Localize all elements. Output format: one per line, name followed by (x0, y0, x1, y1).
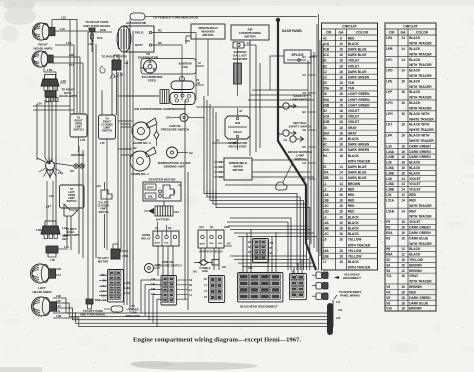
svg-text:L51: L51 (386, 193, 392, 197)
svg-text:LIGHT GREEN: LIGHT GREEN (348, 103, 370, 107)
svg-text:GRAY: GRAY (348, 126, 358, 130)
svg-text:IGN: IGN (218, 243, 222, 245)
svg-text:LPD: LPD (386, 69, 393, 73)
svg-text:16: 16 (401, 285, 405, 289)
svg-text:HEA.: HEA. (62, 237, 68, 241)
air conditioning motor (231, 25, 269, 40)
wire L3C (52, 20, 77, 28)
svg-text:18: 18 (339, 238, 343, 242)
svg-text:LINK: LINK (202, 269, 208, 273)
svg-text:G2: G2 (189, 151, 193, 155)
brake warning switch symbol (276, 182, 287, 190)
wire ac motor down (249, 40, 251, 156)
svg-text:SWITCH: SWITCH (66, 199, 76, 203)
svg-text:16: 16 (401, 112, 405, 116)
svg-text:18: 18 (339, 59, 343, 63)
svg-text:BLACK: BLACK (409, 166, 421, 170)
svg-text:16: 16 (339, 53, 343, 57)
svg-text:D5: D5 (303, 145, 307, 149)
wire color code table 1 (322, 23, 378, 270)
svg-text:RED: RED (348, 36, 355, 40)
svg-text:C1: C1 (247, 41, 251, 45)
svg-text:LIGHT GREEN: LIGHT GREEN (348, 98, 370, 102)
svg-text:RED: RED (348, 204, 355, 208)
connector block engine harness (209, 276, 225, 303)
svg-text:L4C: L4C (60, 27, 65, 31)
svg-text:L21A: L21A (122, 249, 128, 253)
svg-text:B2: B2 (303, 110, 307, 114)
svg-text:14: 14 (401, 36, 405, 40)
wire coil feeds (195, 84, 204, 86)
svg-text:BATTERY: BATTERY (156, 218, 170, 222)
svg-text:T11: T11 (140, 66, 145, 70)
svg-text:DARK GREEN: DARK GREEN (409, 296, 431, 300)
svg-text:RED: RED (348, 187, 355, 191)
fusible link diamond (199, 260, 208, 266)
svg-text:HEADLAMPS: HEADLAMPS (33, 46, 52, 50)
svg-text:SOL: SOL (148, 196, 154, 199)
svg-text:G6: G6 (303, 91, 307, 95)
svg-text:L6A: L6A (323, 249, 330, 253)
to right open limit switch (70, 114, 87, 137)
wire L4C (55, 30, 88, 32)
svg-text:COLOR: COLOR (356, 30, 369, 34)
svg-text:L34: L34 (386, 144, 392, 148)
svg-text:D5A: D5A (323, 87, 330, 91)
svg-text:L3D: L3D (323, 210, 330, 214)
svg-text:R2A: R2A (386, 231, 393, 235)
svg-text:B2: B2 (323, 64, 327, 68)
scan blotch top-left (4, 1, 34, 9)
svg-text:14: 14 (339, 176, 343, 180)
svg-text:L3D: L3D (69, 53, 74, 57)
svg-text:L3D: L3D (56, 267, 61, 271)
svg-text:MOTOR: MOTOR (233, 168, 245, 172)
distributor (144, 60, 157, 73)
svg-text:DARK BLUE: DARK BLUE (348, 176, 367, 180)
svg-text:18: 18 (401, 307, 405, 311)
svg-text:BATT: BATT (200, 243, 206, 246)
connector block left firewall (108, 270, 124, 302)
lamp left headlamp lower (32, 297, 51, 316)
svg-text:BLACK: BLACK (409, 90, 421, 94)
svg-text:G2: G2 (303, 128, 307, 132)
svg-text:18: 18 (339, 131, 343, 135)
svg-text:R6A: R6A (386, 253, 393, 257)
connector to left dual headlamps (41, 226, 60, 234)
connector left closing switch plug (101, 190, 112, 199)
air conditioning compressor (160, 90, 169, 104)
wire trunk center verticals (117, 72, 119, 248)
svg-text:WITH TRACER: WITH TRACER (409, 280, 432, 284)
low oil pressure switch lower (145, 264, 154, 273)
svg-text:SWITCH: SWITCH (102, 129, 112, 133)
svg-text:L34A: L34A (386, 150, 394, 154)
svg-text:BROWN: BROWN (348, 182, 361, 186)
lamp left headlamp upper (31, 264, 50, 283)
connector left turn feed (46, 170, 54, 177)
windshield washer motor (191, 24, 225, 39)
svg-text:L3B: L3B (88, 42, 93, 46)
svg-text:16: 16 (339, 193, 343, 197)
svg-text:CIRCUIT: CIRCUIT (342, 24, 357, 28)
svg-text:G6: G6 (323, 126, 327, 130)
svg-text:B1: B1 (323, 59, 327, 63)
alternator regulator (225, 116, 250, 139)
svg-text:18: 18 (339, 98, 343, 102)
horn no 2 (132, 122, 150, 140)
ground terminal rings (74, 164, 78, 168)
svg-text:TAN: TAN (348, 87, 355, 91)
svg-text:COLOR: COLOR (416, 30, 429, 34)
svg-text:V5: V5 (386, 296, 390, 300)
svg-text:WITH TRACER: WITH TRACER (409, 242, 432, 246)
svg-text:18: 18 (339, 255, 343, 259)
svg-text:WITH TRACER: WITH TRACER (409, 52, 432, 56)
svg-text:H1: H1 (155, 226, 159, 230)
svg-text:BULKHEAD DISCONNECT: BULKHEAD DISCONNECT (240, 305, 278, 309)
svg-text:16: 16 (339, 47, 343, 51)
svg-text:DARK GREEN: DARK GREEN (409, 226, 431, 230)
svg-text:18: 18 (339, 115, 343, 119)
svg-text:18: 18 (339, 154, 343, 158)
svg-text:18: 18 (401, 274, 405, 278)
svg-text:BROWN: BROWN (409, 285, 422, 289)
svg-text:L4C: L4C (61, 79, 66, 83)
wire trunk left verticals (69, 20, 71, 114)
wire resistor bottom (237, 84, 239, 96)
svg-text:14: 14 (401, 209, 405, 213)
svg-text:RED: RED (409, 290, 416, 294)
svg-text:TO FENDER TURN INDICATOR: TO FENDER TURN INDICATOR (153, 16, 199, 20)
svg-text:LPK: LPK (386, 134, 393, 138)
svg-text:D6A: D6A (323, 98, 330, 102)
svg-text:10: 10 (339, 42, 343, 46)
svg-text:P5: P5 (386, 220, 390, 224)
connector right headlamp feed (45, 91, 56, 97)
wire horizontals right to trunk (252, 89, 308, 91)
scan gray band top (0, 0, 474, 6)
svg-text:L38: L38 (386, 177, 392, 181)
svg-text:L3A: L3A (323, 193, 330, 197)
fusible link capsule (130, 13, 145, 20)
svg-text:WHITE TRACER: WHITE TRACER (409, 139, 434, 143)
wire field to regulator (195, 33, 197, 101)
wire horn relay feeds (157, 222, 159, 235)
wire coil frame feed (196, 65, 204, 67)
svg-text:WITH TRACER: WITH TRACER (348, 266, 371, 270)
svg-text:18: 18 (401, 226, 405, 230)
svg-text:14: 14 (339, 165, 343, 169)
resistor ignition ballast (234, 63, 242, 84)
wire top distribution (152, 16, 317, 18)
svg-text:16: 16 (339, 221, 343, 225)
svg-text:16: 16 (401, 134, 405, 138)
svg-text:L34B: L34B (386, 155, 394, 159)
neutral safety switch (283, 130, 289, 136)
svg-text:J2: J2 (323, 165, 327, 169)
svg-text:MOTOR: MOTOR (98, 259, 108, 263)
to left open limit switch (60, 185, 85, 208)
svg-text:L6B: L6B (323, 255, 330, 259)
svg-text:RED: RED (348, 193, 355, 197)
svg-text:C2: C2 (303, 73, 307, 77)
svg-text:RED: RED (409, 193, 416, 197)
connector left park-turn (86, 299, 93, 304)
wire L7 left (46, 181, 48, 225)
temperature gauge sending unit (167, 147, 178, 158)
svg-text:18: 18 (339, 75, 343, 79)
svg-text:L7N: L7N (47, 68, 52, 72)
svg-text:DARK BLUE: DARK BLUE (409, 301, 428, 305)
svg-text:14: 14 (401, 58, 405, 62)
svg-text:T11: T11 (386, 274, 392, 278)
svg-text:STARTER MOTOR: STARTER MOTOR (149, 178, 176, 182)
svg-text:GRD: GRD (224, 226, 230, 229)
svg-text:L36A: L36A (386, 166, 394, 170)
svg-text:T11: T11 (270, 242, 275, 245)
svg-text:G6A: G6A (166, 116, 172, 120)
wire V10 washer (186, 36, 191, 44)
svg-text:G5B: G5B (100, 28, 106, 32)
svg-text:L38A: L38A (125, 287, 131, 290)
wire splice feeds (270, 56, 284, 90)
svg-text:14: 14 (339, 182, 343, 186)
svg-text:16: 16 (339, 204, 343, 208)
svg-text:S2: S2 (386, 258, 390, 262)
svg-text:L6: L6 (323, 238, 327, 242)
svg-text:DARK BLUE: DARK BLUE (348, 165, 367, 169)
svg-text:SOL: SOL (209, 243, 214, 245)
svg-text:VIOLET: VIOLET (348, 64, 360, 68)
svg-text:16: 16 (401, 90, 405, 94)
svg-text:16: 16 (339, 148, 343, 152)
svg-text:VIOLET: VIOLET (348, 59, 360, 63)
svg-text:SWITCH: SWITCH (73, 128, 83, 132)
svg-text:L3C: L3C (323, 204, 330, 208)
svg-text:BLACK: BLACK (348, 137, 360, 141)
svg-text:12: 12 (401, 193, 405, 197)
svg-text:GRAY: GRAY (348, 131, 358, 135)
svg-text:DARK BLUE: DARK BLUE (348, 53, 367, 57)
svg-text:V3: V3 (386, 285, 390, 289)
svg-text:14: 14 (401, 177, 405, 181)
svg-text:BLACK: BLACK (409, 101, 421, 105)
wire starter relay drops (200, 248, 202, 266)
svg-text:YELLOW: YELLOW (409, 258, 423, 262)
svg-text:18: 18 (401, 155, 405, 159)
svg-text:A1A: A1A (323, 42, 330, 46)
svg-text:TAN: TAN (348, 81, 355, 85)
svg-text:L34: L34 (338, 309, 343, 312)
wire compressor feed (124, 95, 159, 97)
svg-text:14: 14 (401, 188, 405, 192)
svg-text:18: 18 (339, 120, 343, 124)
svg-text:R3: R3 (216, 139, 220, 143)
svg-text:BLACK: BLACK (409, 171, 421, 175)
svg-text:18: 18 (339, 103, 343, 107)
svg-text:B1: B1 (303, 55, 307, 59)
svg-text:BLACK: BLACK (348, 215, 360, 219)
svg-text:A1: A1 (323, 36, 327, 40)
svg-text:WITH TRACER: WITH TRACER (348, 159, 371, 163)
connector left headlamp feed (46, 246, 58, 253)
svg-text:14: 14 (401, 182, 405, 186)
wire bundle headlamp to ground fan (37, 158, 50, 164)
svg-text:L36: L36 (386, 161, 392, 165)
svg-text:16: 16 (339, 215, 343, 219)
svg-text:VIOLET: VIOLET (348, 120, 360, 124)
svg-text:A/C: A/C (222, 266, 227, 269)
wire horns feed (150, 118, 204, 124)
svg-text:V10: V10 (386, 307, 392, 311)
wire horn feeds left (118, 120, 132, 122)
svg-text:L36: L36 (151, 283, 156, 286)
svg-text:BLACK: BLACK (348, 227, 360, 231)
svg-text:HEADLAMPS: HEADLAMPS (63, 233, 80, 237)
connector block center firewall (161, 276, 177, 306)
wire left mid verticals (66, 216, 68, 246)
svg-text:GA: GA (401, 30, 407, 34)
svg-text:BATT: BATT (147, 187, 154, 190)
svg-text:VIOLET: VIOLET (348, 115, 360, 119)
svg-text:D5: D5 (323, 81, 327, 85)
svg-text:GRAY: GRAY (409, 274, 419, 278)
svg-text:L1: L1 (323, 182, 327, 186)
svg-text:YELLOW: YELLOW (348, 238, 362, 242)
svg-text:14: 14 (401, 69, 405, 73)
svg-text:WITH TRACER: WITH TRACER (409, 106, 432, 110)
svg-text:L4B: L4B (36, 228, 41, 232)
svg-text:L3C: L3C (61, 16, 66, 20)
connector diamond oil pressure (154, 131, 159, 139)
svg-text:SWITCH: SWITCH (98, 210, 108, 214)
wire left closing down (104, 214, 106, 248)
svg-text:C3: C3 (323, 75, 327, 79)
svg-text:CIR: CIR (326, 30, 332, 34)
fusible link holder (212, 260, 219, 266)
svg-text:BLACK WITH: BLACK WITH (409, 134, 430, 138)
svg-text:V10: V10 (185, 39, 190, 43)
svg-text:16: 16 (401, 263, 405, 267)
wires closing limit switch feeds (101, 90, 103, 115)
svg-text:L4A: L4A (323, 221, 330, 225)
wire trunk left-inner verticals (36, 104, 38, 160)
svg-text:WITH TRACER: WITH TRACER (409, 63, 432, 67)
back-up lamp switch (283, 103, 289, 109)
svg-text:DARK BLUE: DARK BLUE (409, 236, 428, 240)
svg-text:16: 16 (401, 79, 405, 83)
wire G6 lower (154, 267, 160, 269)
svg-text:CIRCUIT: CIRCUIT (403, 24, 418, 28)
svg-text:R2: R2 (386, 226, 390, 230)
connector left open switch plug (64, 204, 78, 216)
svg-text:16: 16 (401, 236, 405, 240)
svg-text:LPA: LPA (386, 36, 393, 40)
svg-text:HEADLAMPS: HEADLAMPS (59, 94, 77, 98)
bulkhead disconnect main block (238, 273, 283, 302)
svg-text:BLACK: BLACK (409, 69, 421, 73)
scan mottling (143, 62, 163, 66)
wire vertical drops to bulkhead (242, 237, 244, 272)
scan band bottom-left (0, 367, 42, 372)
svg-text:14: 14 (401, 47, 405, 51)
svg-text:G4: G4 (284, 138, 288, 142)
svg-text:18: 18 (339, 81, 343, 85)
svg-text:L31A: L31A (125, 292, 131, 295)
ground G4 connector (290, 136, 296, 142)
horn relay (153, 231, 179, 246)
starter relay (198, 230, 224, 248)
svg-text:L51B: L51B (386, 209, 394, 213)
svg-text:R6: R6 (158, 41, 162, 45)
svg-text:L36A: L36A (125, 282, 131, 285)
svg-text:L38A: L38A (386, 182, 394, 186)
svg-text:LIGHT GREEN: LIGHT GREEN (348, 92, 370, 96)
svg-text:CIR: CIR (389, 30, 395, 34)
harness thick bar (327, 303, 333, 335)
svg-text:DARK GREEN: DARK GREEN (409, 155, 431, 159)
svg-text:BLACK: BLACK (409, 247, 421, 251)
wire resistor top (237, 48, 239, 63)
svg-text:HORN NO. 2: HORN NO. 2 (133, 141, 151, 145)
svg-text:J2A: J2A (323, 171, 330, 175)
svg-text:L4: L4 (323, 215, 327, 219)
connector to left motor (111, 249, 120, 259)
svg-text:18: 18 (401, 144, 405, 148)
wire L7J (53, 62, 83, 64)
wire C1 ac (244, 44, 256, 46)
svg-text:D6B: D6B (323, 103, 330, 107)
svg-text:GA: GA (339, 30, 345, 34)
svg-text:BLACK: BLACK (409, 161, 421, 165)
svg-text:18: 18 (339, 249, 343, 253)
svg-text:V4: V4 (386, 290, 390, 294)
svg-text:18: 18 (339, 64, 343, 68)
svg-text:S4: S4 (386, 263, 390, 267)
svg-text:BLACK: BLACK (348, 260, 360, 264)
svg-text:H1: H1 (323, 137, 327, 141)
svg-text:L21: L21 (124, 61, 129, 65)
pencil squiggle 6 (100, 66, 105, 73)
svg-text:L3A: L3A (37, 102, 42, 106)
svg-text:BROWN: BROWN (409, 269, 422, 273)
svg-text:DASH PANEL: DASH PANEL (282, 29, 303, 33)
wire washer motor down (207, 39, 209, 96)
svg-text:BLACK WITH: BLACK WITH (409, 123, 430, 127)
svg-text:L3B: L3B (323, 199, 330, 203)
svg-text:18: 18 (401, 301, 405, 305)
svg-text:H2: H2 (168, 226, 172, 230)
svg-text:L7: L7 (323, 260, 327, 264)
svg-text:L36B: L36B (386, 171, 394, 175)
svg-text:HORN NO. 1: HORN NO. 1 (131, 172, 149, 176)
svg-text:A1A: A1A (174, 210, 179, 214)
wire bus risers to center connector (141, 280, 162, 313)
svg-text:18: 18 (339, 92, 343, 96)
svg-text:G2A: G2A (323, 115, 330, 119)
wire G6A clutch (172, 117, 180, 119)
svg-text:SOL: SOL (164, 243, 169, 245)
svg-text:R6: R6 (386, 247, 390, 251)
svg-text:DARK BLUE: DARK BLUE (348, 171, 367, 175)
svg-text:IGN: IGN (235, 121, 240, 125)
svg-text:WITH TRACER: WITH TRACER (409, 42, 432, 46)
svg-text:AIR CONDITIONING COMPRESSOR: AIR CONDITIONING COMPRESSOR (134, 107, 186, 111)
svg-text:12: 12 (401, 269, 405, 273)
svg-text:DARK BLUE: DARK BLUE (348, 47, 367, 51)
connector ac motor (233, 42, 244, 48)
